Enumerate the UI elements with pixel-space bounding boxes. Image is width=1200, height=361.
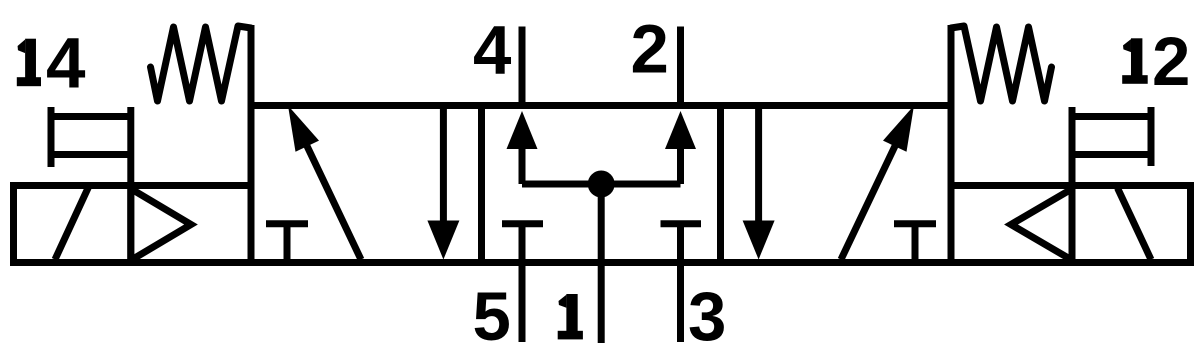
wire: bracket top rung bbox=[1072, 113, 1151, 120]
port 1 line bbox=[598, 184, 605, 343]
wire: bracket inner post bbox=[127, 107, 134, 186]
blocked port 5 T (box2) bbox=[502, 220, 543, 227]
svg-text:2: 2 bbox=[631, 11, 669, 88]
spring left bbox=[151, 26, 252, 101]
blocked port T (box1) bbox=[266, 224, 308, 263]
label 12 digit 1 bbox=[1122, 38, 1148, 83]
pilot triangle left bbox=[133, 190, 191, 259]
svg-text:5: 5 bbox=[473, 278, 511, 355]
port 12 connection bracket right bbox=[1072, 107, 1151, 186]
pilot triangle right bbox=[1011, 190, 1070, 259]
valve position box 1 (left) bbox=[251, 106, 482, 263]
pilot compartment left bbox=[131, 186, 251, 263]
svg-text:4: 4 bbox=[46, 25, 86, 104]
solenoid box K2 (right pilot coil) bbox=[1072, 186, 1191, 263]
arrowhead up port 2 (box2) bbox=[665, 111, 696, 149]
coil diagonal K2 bbox=[1118, 188, 1152, 260]
wire: bracket bottom rung bbox=[51, 151, 131, 158]
pilot compartment right bbox=[951, 186, 1072, 263]
branch shaft to port 4 (box2) bbox=[519, 145, 526, 184]
wire: bracket outer post bbox=[1148, 107, 1155, 166]
svg-text:3: 3 bbox=[688, 278, 726, 355]
T stem bbox=[284, 225, 291, 263]
flow arrow shaft diagonal (box1) bbox=[307, 146, 361, 260]
port 3 line bbox=[677, 224, 684, 342]
junction node dot bbox=[588, 171, 615, 198]
flow line down (box3) bbox=[755, 106, 762, 227]
wire: junction crossbar (box2) bbox=[522, 181, 681, 188]
arrowhead diagonal (box3) bbox=[883, 106, 914, 152]
port 4 stub bbox=[519, 27, 526, 106]
blocked port T (box3) bbox=[894, 224, 936, 263]
blocked port 3 T (box2) bbox=[661, 220, 702, 227]
port 14 connection bracket left bbox=[51, 107, 131, 186]
svg-text:2: 2 bbox=[1152, 23, 1190, 100]
arrowhead down (box3) bbox=[743, 221, 775, 260]
wire: bracket bottom rung bbox=[1072, 151, 1151, 158]
wire: right body edge extension bbox=[948, 25, 955, 106]
label 14 digit 1 bbox=[17, 39, 41, 86]
label 1 (port) bbox=[558, 294, 583, 339]
wire: bracket inner post bbox=[1069, 107, 1076, 186]
T stem bbox=[912, 225, 919, 263]
arrowhead up port 4 (box2) bbox=[507, 111, 538, 149]
solenoid box K1 (left pilot coil) bbox=[14, 186, 131, 263]
port 5 line bbox=[519, 224, 526, 342]
svg-text:4: 4 bbox=[473, 12, 511, 89]
arrowhead down (box1) bbox=[427, 221, 459, 260]
wire: left body edge extension bbox=[248, 25, 255, 106]
flow line down (box1) bbox=[440, 106, 447, 227]
flow arrow shaft diagonal (box3) bbox=[841, 146, 895, 260]
branch shaft to port 2 (box2) bbox=[677, 145, 684, 184]
coil diagonal K1 bbox=[55, 187, 89, 260]
arrowhead diagonal (box1) bbox=[288, 106, 319, 152]
T bar bbox=[894, 220, 936, 227]
wire: bracket outer post bbox=[48, 107, 55, 167]
port 2 stub bbox=[677, 27, 684, 106]
spring right bbox=[951, 26, 1052, 101]
wire: bracket top rung bbox=[51, 113, 131, 120]
T bar bbox=[266, 220, 308, 227]
valve position box 3 (right) bbox=[721, 106, 952, 263]
valve position box 2 (middle) bbox=[482, 106, 721, 263]
